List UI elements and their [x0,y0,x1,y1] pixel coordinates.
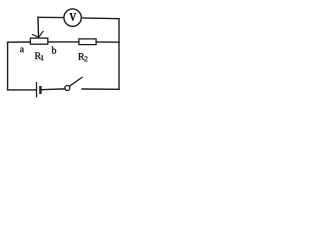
node slider arrowhead [33,31,43,37]
battery cell: long plate [36,82,38,97]
switch lever [70,77,83,86]
node label b [52,47,57,54]
node label a [20,48,24,53]
battery cell: short thick plate [39,86,41,94]
wire main row: R1 to R2 [48,41,79,43]
voltmeter V label [70,13,77,20]
wire bottom: left corner to battery [8,89,36,91]
label R2 [78,53,84,60]
wire bottom: battery to switch [42,88,65,91]
wire main row: left to R1 [8,41,31,43]
switch pivot circle [65,86,70,91]
wire right edge [118,19,120,90]
resistor R2 body [79,39,96,45]
resistor R1 body (rheostat) [30,38,47,44]
wire top branch left segment [38,16,64,18]
wire top branch right segment [81,17,119,20]
label R1 [35,52,41,59]
wire left edge [7,42,9,90]
wire slider stem [37,17,40,37]
wire main row: R2 to right edge [96,41,119,43]
wire bottom: switch to right corner [82,88,119,90]
voltmeter V meter circle [64,9,81,26]
